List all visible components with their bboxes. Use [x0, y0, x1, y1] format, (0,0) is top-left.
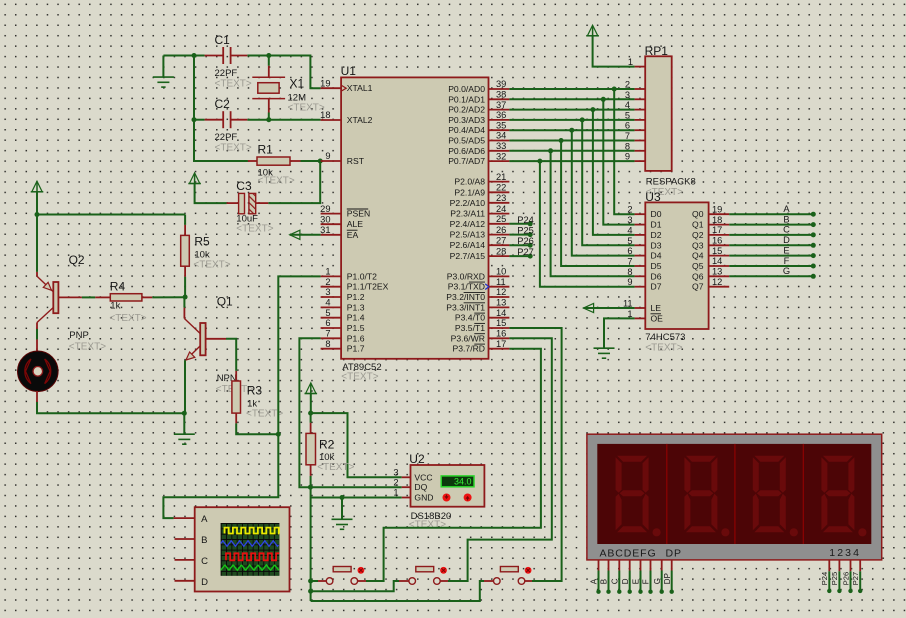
pin D (scope) — [175, 580, 195, 582]
wire P0.7 down to U3 D7 — [540, 161, 635, 287]
transistor Q2 (PNP) — [53, 282, 58, 313]
wire net G — [729, 275, 813, 277]
svg-text:15: 15 — [712, 246, 722, 256]
wire P0.0 to RP1 pin 2 — [509, 88, 634, 90]
pin 2 DQ (U2) — [402, 486, 411, 488]
junction button2 feed — [308, 589, 313, 594]
resistor R5 — [184, 215, 186, 225]
7-segment display 4-digit body — [587, 434, 882, 560]
svg-text:DP: DP — [663, 573, 672, 584]
pin B (scope) — [175, 538, 195, 540]
svg-text:Q7: Q7 — [692, 282, 704, 292]
svg-text:34: 34 — [496, 131, 506, 141]
svg-text:C: C — [783, 225, 790, 235]
svg-text:ABCDEFG: ABCDEFG — [600, 547, 657, 559]
svg-text:3: 3 — [325, 287, 330, 297]
waveform D (green) — [221, 565, 279, 570]
svg-text:<TEXT>: <TEXT> — [215, 79, 252, 90]
svg-text:F: F — [642, 579, 651, 584]
svg-text:P1.2: P1.2 — [347, 292, 365, 302]
wire power to R2 node — [310, 394, 312, 414]
pin A (display segment) — [598, 560, 600, 571]
latch U3 74HC573 body — [645, 202, 708, 329]
svg-text:4: 4 — [325, 298, 330, 308]
svg-text:R4: R4 — [110, 280, 126, 294]
pin 11 P3.1/TXD (U1 right) — [489, 286, 510, 288]
wire P0.5 down to U3 D5 — [561, 141, 635, 267]
svg-text:15: 15 — [496, 318, 506, 328]
svg-text:12: 12 — [712, 277, 722, 287]
pin 16 P3.6/WR (U1 right) — [489, 337, 510, 339]
svg-text:VCC: VCC — [414, 472, 432, 482]
svg-text:P1.4: P1.4 — [347, 313, 365, 323]
pin 18 Q1 (U3 right) — [709, 224, 730, 226]
wire P0.7 to RP1 pin 9 — [509, 160, 634, 162]
junction button1 feed — [308, 579, 313, 584]
wire P0.3 to RP1 pin 5 — [509, 119, 634, 121]
svg-text:<TEXT>: <TEXT> — [341, 371, 378, 382]
svg-text:Q4: Q4 — [692, 251, 704, 261]
wire RST node down to C3 row — [268, 161, 320, 203]
wire R1 to RST pin — [301, 160, 321, 162]
7seg digit 3 — [753, 456, 798, 537]
svg-text:36: 36 — [496, 110, 506, 120]
switch button K1 — [326, 578, 333, 585]
wire net F — [729, 265, 813, 267]
wire P0.1 to RP1 pin 3 — [509, 98, 634, 100]
pin 3 (RP1) — [635, 98, 646, 100]
svg-text:P27: P27 — [851, 572, 860, 585]
svg-text:Q2: Q2 — [692, 230, 704, 240]
wire speaker to ground node — [37, 402, 184, 413]
svg-text:22: 22 — [496, 183, 506, 193]
svg-text:<TEXT>: <TEXT> — [317, 462, 354, 473]
pin 3 D1 (U3 left) — [635, 224, 646, 226]
svg-text:1234: 1234 — [829, 547, 861, 559]
wire XTAL net row C2 — [194, 119, 205, 121]
pin 5 P1.4 (U1 left) — [321, 317, 342, 319]
svg-text:8: 8 — [325, 339, 330, 349]
svg-text:P0.7/AD7: P0.7/AD7 — [448, 156, 485, 166]
svg-text:11: 11 — [496, 277, 506, 287]
clock chevron on XTAL1 — [342, 85, 347, 91]
svg-text:<TEXT>: <TEXT> — [645, 342, 682, 353]
svg-text:27: 27 — [496, 235, 506, 245]
svg-text:G: G — [783, 266, 790, 276]
wire GND rail down to buttons — [310, 487, 312, 601]
pin 18 XTAL2 (U1 left) — [321, 119, 342, 121]
TXD activity chevron (blue) — [485, 284, 489, 290]
svg-text:U2: U2 — [409, 452, 425, 466]
svg-text:12: 12 — [496, 287, 506, 297]
wire OE to ground — [604, 318, 635, 348]
svg-text:C3: C3 — [236, 179, 252, 193]
svg-text:Q1: Q1 — [217, 295, 233, 309]
pin 28 P2.7/A15 (U1 right) — [489, 255, 510, 257]
pin 16 Q3 (U3 right) — [709, 244, 730, 246]
pin 34 P0.5/AD5 (U1 right) — [489, 140, 510, 142]
pin 32 P0.7/AD7 (U1 right) — [489, 160, 510, 162]
svg-text:R3: R3 — [247, 384, 263, 398]
svg-text:Q6: Q6 — [692, 271, 704, 281]
wire P0.4 down to U3 D4 — [572, 130, 635, 255]
U2 temperature display 34.0 — [441, 476, 474, 487]
svg-text:D: D — [783, 235, 790, 245]
pin 10 P3.0/RXD (U1 right) — [489, 275, 510, 277]
junction P0.4 stair — [569, 128, 574, 133]
wire net C — [729, 234, 813, 236]
junction P0.7 stair — [537, 159, 542, 164]
pin 3 VCC (U2) — [402, 476, 411, 478]
waveform C (red) — [226, 553, 279, 560]
svg-text:P0.3/AD3: P0.3/AD3 — [448, 115, 485, 125]
pin 12 Q7 (U3 right) — [709, 286, 730, 288]
svg-text:C: C — [201, 556, 208, 567]
pin 9 (RP1) — [635, 160, 646, 162]
svg-text:26: 26 — [496, 225, 506, 235]
svg-text:13: 13 — [712, 267, 722, 277]
wire P0.3 down to U3 D3 — [582, 120, 634, 245]
wire scope feed — [163, 434, 278, 518]
power arrow left (Q2 emitter rail) — [32, 181, 42, 192]
wire net E — [729, 255, 813, 257]
svg-text:D: D — [201, 577, 208, 588]
svg-text:RESPACK8: RESPACK8 — [646, 176, 696, 187]
svg-text:P27: P27 — [517, 247, 534, 257]
pin 2 P1.1/T2EX (U1 left) — [321, 286, 342, 288]
pin DP (display segment) — [671, 560, 673, 571]
pin E (display segment) — [640, 560, 642, 571]
svg-text:D7: D7 — [651, 282, 662, 292]
resistor R3 — [235, 371, 237, 381]
svg-text:A: A — [201, 514, 208, 525]
pin 1 OE (U3) — [635, 317, 646, 319]
ground (below U2) — [341, 498, 343, 520]
pin P27 (display digit select) — [859, 560, 861, 571]
wire net P25 — [509, 234, 530, 236]
svg-text:R2: R2 — [319, 438, 335, 452]
wire button3 to P3.5 — [525, 580, 532, 582]
svg-text:P0.1/AD1: P0.1/AD1 — [448, 94, 485, 104]
junction R4/R5/Q1 node — [183, 295, 188, 300]
svg-text:P24: P24 — [820, 572, 829, 585]
pin P26 (display digit select) — [850, 560, 852, 571]
svg-text:P2.2/A10: P2.2/A10 — [450, 198, 486, 208]
svg-text:4: 4 — [625, 100, 630, 110]
7seg digit 4 — [821, 456, 866, 537]
pin 37 P0.2/AD2 (U1 right) — [489, 109, 510, 111]
svg-text:2: 2 — [627, 205, 632, 215]
junction P0.3 stair — [580, 117, 585, 122]
svg-text:33: 33 — [496, 141, 506, 151]
scope screen — [221, 523, 280, 576]
7seg digit 1 — [616, 456, 661, 537]
svg-text:P25: P25 — [517, 226, 534, 236]
svg-text:9: 9 — [325, 151, 330, 161]
junction X1 bottom — [266, 117, 271, 122]
svg-text:16: 16 — [712, 236, 722, 246]
pin 23 P2.2/A10 (U1 right) — [489, 202, 510, 204]
wire P0.6 to RP1 pin 8 — [509, 150, 634, 152]
junction GND/ground symbol — [340, 495, 345, 500]
svg-text:7: 7 — [325, 329, 330, 339]
svg-text:1: 1 — [628, 57, 633, 67]
oscilloscope body — [195, 507, 290, 591]
svg-text:DP: DP — [666, 547, 682, 559]
svg-text:39: 39 — [496, 79, 506, 89]
svg-text:<TEXT>: <TEXT> — [215, 143, 252, 154]
svg-text:29: 29 — [320, 204, 330, 214]
svg-text:<TEXT>: <TEXT> — [193, 260, 230, 271]
svg-text:XTAL2: XTAL2 — [347, 115, 373, 125]
pin 7 (RP1) — [635, 140, 646, 142]
svg-text:A: A — [783, 204, 790, 214]
wire net B — [729, 224, 813, 226]
switch button K3 — [494, 578, 501, 585]
svg-text:P26: P26 — [841, 572, 850, 585]
pin 22 P2.1/A9 (U1 right) — [489, 191, 510, 193]
svg-text:D5: D5 — [651, 261, 662, 271]
junction R3/P1.0 node — [276, 432, 281, 437]
svg-text:P2.5/A13: P2.5/A13 — [450, 230, 486, 240]
svg-text:R5: R5 — [194, 235, 210, 249]
wire net P27 — [509, 255, 530, 257]
svg-text:P0.6/AD6: P0.6/AD6 — [448, 146, 485, 156]
pin 13 P3.3/INT1 (U1 right) — [489, 306, 510, 308]
wire power to R5/Q2 row — [37, 192, 185, 215]
svg-text:D1: D1 — [651, 220, 662, 230]
svg-text:D3: D3 — [651, 240, 662, 250]
pin 31 EA (U1 left) — [321, 234, 342, 236]
svg-text:P2.4/A12: P2.4/A12 — [450, 219, 486, 229]
pin 4 P1.3 (U1 left) — [321, 306, 342, 308]
resistor pack RP1 RESPACK8 — [645, 56, 672, 171]
svg-text:C: C — [611, 578, 620, 584]
svg-text:7: 7 — [627, 257, 632, 267]
svg-text:23: 23 — [496, 193, 506, 203]
svg-text:8: 8 — [625, 141, 630, 151]
svg-text:5: 5 — [627, 236, 632, 246]
wire U2 GND net — [311, 497, 402, 499]
pin G (display segment) — [661, 560, 663, 571]
svg-text:Q0: Q0 — [692, 209, 704, 219]
svg-text:37: 37 — [496, 100, 506, 110]
svg-text:P2.0/A8: P2.0/A8 — [454, 177, 485, 187]
svg-text:E: E — [783, 245, 789, 255]
svg-text:G: G — [653, 578, 662, 584]
pin 1 GND (U2) — [402, 497, 411, 499]
svg-text:GND: GND — [414, 493, 433, 503]
pin 24 P2.3/A11 (U1 right) — [489, 213, 510, 215]
resistor R2 — [310, 413, 312, 423]
svg-text:F: F — [784, 256, 790, 266]
svg-text:2: 2 — [625, 80, 630, 90]
svg-text:P1.3: P1.3 — [347, 302, 365, 312]
pin 8 D6 (U3 left) — [635, 275, 646, 277]
pin 4 (RP1) — [635, 109, 646, 111]
svg-text:P3.3/INT1: P3.3/INT1 — [446, 302, 485, 312]
junction speaker/emitter/ground — [182, 411, 187, 416]
svg-text:2: 2 — [325, 277, 330, 287]
7seg digit panel dividers — [666, 444, 668, 544]
U2 spinner buttons — [443, 494, 451, 502]
svg-text:18: 18 — [712, 215, 722, 225]
wire button1 to P3.7 — [358, 580, 366, 582]
wire power to C3 — [195, 184, 227, 204]
pin 19 XTAL1 (U1 left) — [321, 87, 342, 89]
svg-text:P0.4/AD4: P0.4/AD4 — [448, 125, 485, 135]
svg-text:D2: D2 — [651, 230, 662, 240]
wire net D — [729, 244, 813, 246]
pin 2 D0 (U3 left) — [635, 213, 646, 215]
svg-text:P24: P24 — [517, 215, 534, 225]
pin 15 Q4 (U3 right) — [709, 255, 730, 257]
waveform A (yellow) — [225, 528, 280, 534]
svg-text:35: 35 — [496, 120, 506, 130]
svg-text:7: 7 — [625, 131, 630, 141]
wire VCC to U2 — [311, 413, 402, 477]
svg-text:16: 16 — [496, 329, 506, 339]
svg-text:P1.5: P1.5 — [347, 323, 365, 333]
svg-text:5: 5 — [625, 110, 630, 120]
pin 3 P1.2 (U1 left) — [321, 296, 342, 298]
ground (mid-left) — [183, 413, 185, 434]
svg-text:C1: C1 — [215, 33, 231, 47]
wire P0.6 down to U3 D6 — [551, 151, 635, 276]
svg-text:PNP: PNP — [69, 330, 89, 341]
pin 21 P2.0/A8 (U1 right) — [489, 181, 510, 183]
svg-text:9: 9 — [627, 277, 632, 287]
svg-text:P1.0/T2: P1.0/T2 — [347, 271, 377, 281]
pin 33 P0.6/AD6 (U1 right) — [489, 150, 510, 152]
svg-text:Q1: Q1 — [692, 220, 704, 230]
svg-text:17: 17 — [712, 225, 722, 235]
junction P0.6 stair — [548, 148, 553, 153]
svg-text:3: 3 — [625, 90, 630, 100]
svg-text:1: 1 — [325, 267, 330, 277]
svg-text:D0: D0 — [651, 209, 662, 219]
svg-text:10: 10 — [496, 267, 506, 277]
pin 13 Q6 (U3 right) — [709, 275, 730, 277]
pin 8 (RP1) — [635, 150, 646, 152]
svg-text:P0.2/AD2: P0.2/AD2 — [448, 105, 485, 115]
7seg digit 2 — [684, 456, 729, 537]
svg-text:P3.7/RD: P3.7/RD — [453, 344, 485, 354]
pin F (display segment) — [650, 560, 652, 571]
junction power rail corner — [35, 212, 40, 217]
svg-text:E: E — [632, 579, 641, 584]
svg-text:B: B — [201, 535, 207, 546]
pin 25 P2.4/A12 (U1 right) — [489, 223, 510, 225]
pin 14 P3.4/T0 (U1 right) — [489, 317, 510, 319]
svg-text:EA: EA — [347, 230, 359, 240]
wire P0.2 down to U3 D2 — [593, 110, 635, 235]
svg-text:1k: 1k — [110, 301, 120, 312]
svg-text:D4: D4 — [651, 251, 662, 261]
pin 5 (RP1) — [635, 119, 646, 121]
svg-text:3: 3 — [393, 468, 398, 478]
power arrow RP1 pin1 — [587, 25, 597, 36]
pin 14 Q5 (U3 right) — [709, 265, 730, 267]
pin P25 (display digit select) — [838, 560, 840, 571]
wire P0.0 down to U3 D0 — [614, 89, 634, 214]
svg-text:<TEXT>: <TEXT> — [409, 520, 446, 531]
svg-text:34.0: 34.0 — [454, 477, 472, 487]
svg-text:D: D — [621, 578, 630, 584]
svg-text:ALE: ALE — [347, 219, 364, 229]
pin 26 P2.5/A13 (U1 right) — [489, 234, 510, 236]
pin 29 PSEN (U1 left) — [321, 213, 342, 215]
resistor R4 — [58, 296, 82, 298]
svg-text:14: 14 — [712, 256, 722, 266]
svg-text:3: 3 — [627, 215, 632, 225]
capacitor C2 — [205, 119, 224, 121]
buzzer / speaker — [36, 339, 38, 352]
pin 1 P1.0/T2 (U1 left) — [321, 275, 342, 277]
svg-text:PSEN: PSEN — [347, 209, 370, 219]
svg-text:8: 8 — [627, 267, 632, 277]
ground (below U3) — [594, 347, 615, 349]
pin 1 (RP1) — [635, 66, 646, 68]
pin 6 D4 (U3 left) — [635, 255, 646, 257]
svg-text:P3.0/RXD: P3.0/RXD — [447, 271, 485, 281]
wire gnd to button2 — [311, 581, 399, 591]
svg-text:6: 6 — [325, 318, 330, 328]
wire P0.5 to RP1 pin 7 — [509, 140, 634, 142]
op-amp U1 body AT89C52 — [341, 77, 488, 358]
pin 35 P0.4/AD4 (U1 right) — [489, 129, 510, 131]
svg-text:OE: OE — [651, 313, 664, 323]
svg-text:P1.7: P1.7 — [347, 344, 365, 354]
svg-text:24: 24 — [496, 204, 506, 214]
svg-text:P3.6/WR: P3.6/WR — [451, 333, 485, 343]
sensor U2 DS18B20 body — [411, 465, 485, 507]
svg-text:P2.1/A9: P2.1/A9 — [454, 187, 485, 197]
svg-text:19: 19 — [712, 204, 722, 214]
pin 17 Q2 (U3 right) — [709, 234, 730, 236]
junction P0.0 stair — [612, 87, 617, 92]
pin 15 P3.5/T1 (U1 right) — [489, 327, 510, 329]
wire gnd to button1 — [311, 580, 318, 582]
svg-text:DQ: DQ — [414, 482, 427, 492]
pin 8 P1.7 (U1 left) — [321, 348, 342, 350]
pin 9 RST (U1 left) — [321, 160, 342, 162]
svg-text:P3.1/TXD: P3.1/TXD — [448, 282, 485, 292]
svg-text:LE: LE — [651, 303, 662, 313]
wire net A — [729, 213, 813, 215]
pin 19 Q0 (U3 right) — [709, 213, 730, 215]
junction P0.2 stair — [590, 107, 595, 112]
svg-text:R1: R1 — [258, 143, 274, 157]
wire DQ to U2 — [310, 486, 401, 488]
svg-text:<TEXT>: <TEXT> — [69, 341, 106, 352]
svg-text:U1: U1 — [341, 64, 357, 78]
wire gnd to button3 — [311, 581, 484, 601]
wire net P24 — [509, 223, 530, 225]
svg-text:A: A — [590, 578, 599, 584]
wire P0.1 down to U3 D1 — [603, 99, 634, 224]
pin 4 D2 (U3 left) — [635, 234, 646, 236]
pin 7 D5 (U3 left) — [635, 265, 646, 267]
pin 9 D7 (U3 left) — [635, 286, 646, 288]
wire P0.2 to RP1 pin 4 — [509, 109, 634, 111]
svg-text:P3.5/T1: P3.5/T1 — [455, 323, 485, 333]
power arrow near C3 — [189, 173, 199, 184]
junction C2 left — [192, 117, 197, 122]
svg-text:RP1: RP1 — [645, 44, 669, 58]
junction RST node — [318, 159, 323, 164]
wire C1-C2 left column — [193, 56, 195, 120]
